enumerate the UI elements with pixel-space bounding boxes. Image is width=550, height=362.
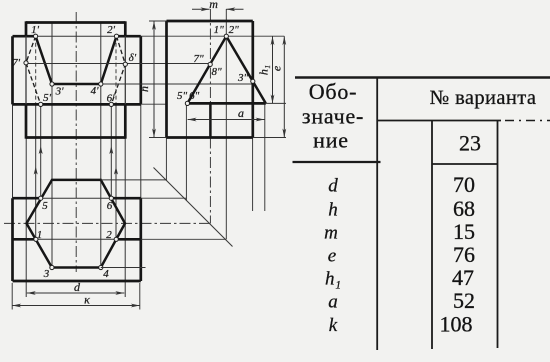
level line through 7' 8' to side view (26, 63, 210, 65)
point 5' (39, 102, 43, 106)
svg-text:70: 70 (453, 172, 475, 197)
front view: intersection line visible 1'-3'-4'-2' (36, 36, 117, 84)
svg-text:e: e (270, 65, 284, 71)
top view: hexagon (27, 180, 126, 268)
front view: hex prism back edge projection right (x=100.8) (100, 23, 102, 268)
front view: hidden apex edge thin between 1' and 2' (36, 35, 117, 37)
svg-text:d: d (74, 280, 81, 294)
point 1' (34, 34, 38, 38)
svg-text:δ': δ' (129, 52, 137, 64)
svg-text:3": 3" (237, 72, 249, 84)
svg-text:1': 1' (31, 24, 40, 36)
projection line hex prism right edge to hexagon vertex (124, 138, 126, 298)
point 5 (39, 196, 43, 200)
svg-text:h₁: h₁ (325, 269, 341, 290)
hanging transfer vertical from side base right corner (264, 103, 266, 211)
point 4 (99, 265, 103, 269)
transfer line apex edge level (141, 238, 226, 240)
svg-text:ние: ние (313, 128, 349, 153)
front view: hex prism left edge (25, 21, 28, 36)
point 2' (114, 34, 118, 38)
svg-text:κ: κ (84, 293, 90, 307)
svg-text:2: 2 (106, 229, 112, 241)
projection line box left corner (x=12.5) (12, 104, 14, 198)
dimension e (283, 36, 285, 137)
svg-text:68: 68 (453, 196, 475, 221)
front view: hex prism top edge (26, 21, 125, 24)
point 7" 8" (208, 62, 212, 66)
transfer line hexagon top edge level (101, 179, 167, 181)
dimension h1 (272, 36, 274, 103)
projection line box right corner (x=140.8) (140, 104, 142, 198)
dimension a (188, 119, 265, 121)
table column divider (376, 78, 378, 351)
table top border (295, 76, 550, 79)
point 5" 6" (185, 101, 189, 105)
point 3" (251, 79, 255, 83)
svg-text:6": 6" (189, 90, 200, 102)
svg-text:4': 4' (91, 85, 100, 97)
level line apex to side view (141, 35, 284, 37)
point 1 (34, 237, 38, 241)
svg-text:1": 1" (214, 24, 225, 36)
svg-text:6: 6 (107, 200, 113, 212)
dimension k (12, 283, 140, 310)
svg-text:d: d (328, 176, 338, 197)
svg-text:k: k (329, 315, 338, 336)
svg-text:7': 7' (12, 57, 21, 69)
top view: apex edge (13, 238, 141, 241)
side view: prism rectangle (167, 21, 253, 138)
top view: box rectangle (13, 198, 141, 281)
svg-text:2': 2' (107, 24, 116, 36)
svg-text:m: m (209, 0, 218, 11)
top view: horizontal centerline (4, 222, 210, 224)
transfer diagonal 45 degrees (154, 168, 233, 247)
svg-text:значе-: значе- (302, 104, 364, 129)
svg-text:Обо-: Обо- (309, 79, 358, 104)
svg-text:h: h (328, 200, 338, 221)
svg-text:5": 5" (177, 90, 188, 102)
svg-text:a: a (238, 106, 244, 120)
point 4' (99, 82, 103, 86)
svg-text:8": 8" (211, 66, 222, 78)
svg-text:6': 6' (107, 93, 116, 105)
hanging transfer vertical from side rect right edge (252, 138, 254, 212)
svg-text:a: a (328, 292, 338, 313)
header underline left cell (293, 161, 381, 163)
svg-text:15: 15 (453, 219, 475, 244)
point 3 (50, 265, 54, 269)
transfer vertical to side base left corner (185, 103, 187, 200)
svg-text:52: 52 (453, 288, 475, 313)
point 3' (50, 82, 54, 86)
transfer line box top edge level (141, 197, 187, 199)
svg-text:5': 5' (43, 92, 52, 104)
front view: box (triangular prism) outline (13, 36, 141, 104)
recall line point 6 with up arrow (110, 104, 112, 198)
front view: vertical centerline (75, 12, 77, 272)
recall line point 1 with up arrow (35, 36, 37, 104)
svg-text:№ варианта: № варианта (430, 87, 537, 109)
point 6' (109, 102, 113, 106)
hexagon bottom edge thin extension (101, 267, 146, 269)
svg-text:h: h (137, 86, 151, 92)
front view: intersection hidden dashed 1'-7'-5' (26, 36, 41, 104)
side view: triangle right slope (226, 36, 265, 103)
front view: hex prism right edge (124, 21, 127, 36)
apex projection vertical (225, 9, 227, 239)
transfer vertical to side rect left edge (165, 138, 167, 181)
svg-text:7": 7" (193, 53, 204, 65)
svg-text:m: m (324, 223, 338, 244)
variant number 23 box bottom (432, 163, 498, 165)
svg-text:23: 23 (459, 131, 481, 156)
top view: box top edge hidden part (41, 197, 111, 199)
svg-text:108: 108 (440, 312, 473, 337)
dimension d (27, 292, 125, 294)
front view: intersection hidden dashed 2'-8'-6' (111, 36, 125, 104)
svg-text:e: e (328, 246, 336, 267)
side view: centerline with thick visible edge below base (209, 9, 211, 103)
svg-text:3: 3 (43, 268, 50, 280)
point 8' (123, 62, 127, 66)
point 1" 2" apex (224, 34, 228, 38)
front view: hex prism back edge projection left (x=52) (51, 23, 53, 268)
side view: rect bottom extension to e line (253, 137, 286, 139)
underline of variant header solid then dashed (378, 120, 502, 122)
recall line point 5 with up arrow (40, 104, 42, 198)
point 6 (109, 196, 113, 200)
side view: triangle left slope (187, 36, 226, 103)
connector box bottom to side view (141, 103, 167, 105)
level line through 3' 4' to side view 3" (101, 83, 253, 85)
side view: triangle base (187, 102, 265, 105)
variant cell left vertical (431, 121, 433, 350)
svg-text:5: 5 (42, 200, 48, 212)
svg-text:3': 3' (55, 86, 65, 98)
svg-text:47: 47 (452, 265, 474, 290)
point 2 (114, 237, 118, 241)
projection line hex prism left edge to hexagon vertex (25, 138, 27, 298)
recall line point 2 with up arrow (115, 36, 117, 104)
svg-text:4: 4 (103, 268, 109, 280)
svg-text:1: 1 (37, 229, 43, 241)
point 7' (24, 61, 28, 65)
svg-text:h₁: h₁ (257, 65, 271, 75)
dimension h (149, 21, 167, 138)
front view: hex prism bottom edge (26, 136, 125, 139)
svg-text:76: 76 (453, 242, 475, 267)
svg-text:2": 2" (229, 24, 240, 36)
variant cell right vertical (497, 121, 499, 349)
